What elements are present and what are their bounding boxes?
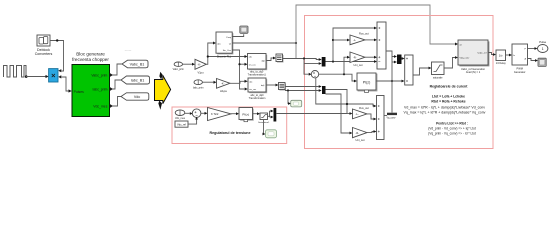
svg-text:Vdc: Vdc — [134, 95, 141, 99]
gain Rq — [353, 128, 368, 138]
svg-text:Rux_out: Rux_out — [359, 31, 369, 35]
mux bar d — [397, 55, 402, 65]
wire PWM to terminator — [528, 59, 536, 61]
svg-text:-K-: -K- — [221, 82, 225, 86]
node: junction x392 — [391, 80, 393, 82]
node: junction Iq — [287, 89, 289, 91]
svg-text:abc: abc — [249, 57, 252, 59]
voltage regulator red box — [172, 107, 287, 144]
svg-text:Pulse: Pulse — [539, 40, 546, 44]
terminator gray box — [538, 58, 546, 66]
vertical bus x392 — [391, 57, 393, 113]
Uabc_ref Generation block — [458, 40, 489, 74]
saturation block — [432, 62, 445, 79]
goto tag Vdc — [121, 93, 149, 100]
wire Iabc_prim to tag — [113, 80, 121, 89]
wire Uabc out to unit delay — [488, 53, 493, 55]
pulse generator signal squiggle — [4, 66, 27, 78]
wire PLL Sin_Cos down to both dq0 — [232, 50, 245, 89]
svg-text:Generator: Generator — [514, 70, 526, 74]
mux bar mid — [322, 86, 326, 94]
sum block S3 — [377, 96, 385, 140]
svg-text:Vdc_ref: Vdc_ref — [177, 123, 186, 127]
svg-text:........: ........ — [125, 48, 132, 52]
wire oval to gain I — [203, 81, 214, 83]
wire dq0-2 to selector2 — [266, 84, 276, 86]
node: junction — [346, 103, 348, 105]
wire S1 out jog down — [386, 51, 394, 57]
wire Vdc_mes to tag — [113, 97, 121, 107]
svg-text:Uni_out: Uni_out — [356, 138, 365, 142]
svg-text:PI(z): PI(z) — [363, 80, 371, 84]
wire PWM to pulse outport — [528, 48, 535, 50]
sum block S1 — [377, 22, 386, 69]
svg-text:-K-: -K- — [198, 63, 202, 67]
selector icon 2 — [279, 83, 287, 91]
saturation v block — [258, 113, 270, 124]
svg-text:Pentru Ltot >> Rtot :: Pentru Ltot >> Rtot : — [436, 122, 468, 126]
wire PI v to saturation v — [253, 113, 258, 115]
S3 out to Vq tag — [384, 115, 387, 117]
svg-text:1: 1 — [542, 47, 544, 51]
wire Vdc_ref to sum — [188, 120, 197, 125]
small green block 2 — [266, 130, 277, 138]
wire gain Rd to S1 — [365, 56, 374, 58]
svg-text:V1pu: V1pu — [197, 70, 204, 74]
node: junction c1 out — [343, 73, 345, 75]
wire oval to gain V — [183, 63, 193, 65]
wire PI d out to S2 — [376, 80, 402, 82]
svg-text:1/z Delay: 1/z Delay — [496, 62, 507, 65]
node: junction Vd — [303, 57, 305, 59]
node: junction dot deblock wire — [56, 39, 58, 41]
wire gain Lq out to S3 — [367, 114, 374, 119]
svg-text:Saturation1: Saturation1 — [258, 121, 270, 124]
svg-text:-R-: -R- — [356, 132, 360, 135]
PWM Generator block — [512, 44, 528, 74]
node: junction gain V out — [207, 55, 209, 57]
wire deblock to product — [50, 41, 64, 72]
svg-text:-R-: -R- — [353, 56, 357, 59]
svg-text:Sin_Cos: Sin_Cos — [223, 50, 232, 52]
node: junction — [332, 60, 334, 62]
node: junction wt — [295, 42, 297, 44]
svg-text:(Vq_prim - Vq_conv) => - Id: (Vq_prim - Vq_conv) => - Id * Ltot — [428, 132, 476, 136]
goto tag Iabc_B1 — [121, 76, 150, 84]
wire saturation to Uabc gen — [444, 58, 455, 69]
wire S2 out to saturation — [413, 68, 429, 75]
sum block S2 — [405, 55, 413, 85]
constant Vdc_ref — [175, 121, 188, 127]
svg-text:Vdc_mes: Vdc_mes — [93, 104, 107, 108]
Deblock Converters block — [35, 35, 53, 56]
wire gain Ld to S1 — [365, 39, 374, 41]
sum circle c1 — [311, 71, 318, 78]
node: junction — [332, 39, 334, 41]
node: junction dot pulse output — [25, 75, 28, 78]
wire up to feedforward — [333, 28, 374, 62]
selector icon 1 — [276, 54, 284, 63]
svg-text:Transformation: Transformation — [249, 97, 266, 100]
green subsystem block: Bloc generare frecventa chopper — [72, 65, 110, 117]
unit delay block — [496, 50, 507, 65]
gain A1pu — [217, 79, 231, 89]
wire Vabc_prim to tag — [113, 64, 122, 75]
sum circle c2 — [192, 109, 201, 118]
wire dq0-1 to selector1 — [266, 58, 273, 61]
wire mux d out to S2 — [401, 58, 403, 60]
abc to dq0 block 1 — [248, 54, 268, 77]
svg-text:Pulses: Pulses — [74, 90, 84, 94]
svg-text:PI(z): PI(z) — [242, 112, 249, 116]
mux bar v — [274, 108, 277, 122]
wire gain to PI v — [231, 113, 236, 115]
wire gain I to dq0 block2 — [230, 81, 245, 83]
svg-text:Transformation1: Transformation1 — [248, 74, 267, 77]
wire long from mux v to q-cluster — [276, 113, 347, 115]
abc to dq0 block 2 — [248, 78, 267, 100]
PI(z) voltage regulator block — [239, 108, 254, 122]
svg-text:sin_cos: sin_cos — [249, 64, 256, 66]
svg-text:A1pu: A1pu — [220, 89, 227, 93]
wire product to green Pulses input — [61, 77, 68, 91]
wire sat v to mux v — [268, 111, 271, 117]
svg-text:Vdc_mes: Vdc_mes — [175, 117, 186, 120]
wire c1 down to q harness — [316, 78, 374, 106]
from tag oval Vabc_prim — [174, 62, 182, 66]
svg-text:Avail (N) = 1: Avail (N) = 1 — [466, 70, 481, 74]
svg-text:Discrete PLL: Discrete PLL — [217, 55, 232, 58]
svg-text:Vq_conv: Vq_conv — [387, 118, 397, 120]
svg-text:-L-: -L- — [356, 113, 359, 116]
wire down to small green display — [287, 91, 289, 104]
wire gain Rq out to S3 — [367, 132, 374, 133]
voltage regulator: inport oval — [175, 110, 185, 116]
svg-text:Converters: Converters — [35, 52, 53, 56]
wire c1 out to PI d — [319, 74, 354, 81]
small green block 1 — [291, 100, 302, 107]
wire PLL wt long run — [232, 42, 296, 44]
wire unit delay to PWM — [506, 54, 510, 56]
svg-text:K Ts/2: K Ts/2 — [211, 112, 219, 116]
svg-text:Regulatorul de tensiune: Regulatorul de tensiune — [210, 131, 251, 135]
wire branch down to green display 2 — [263, 120, 264, 135]
svg-text:Reglatoarele de curent: Reglatoarele de curent — [430, 85, 469, 89]
big red region box — [305, 16, 494, 149]
wire Vd branch down — [304, 59, 309, 75]
wire into gain Lq from x347 — [347, 113, 350, 115]
svg-text:abc: abc — [249, 81, 252, 83]
wire branch up to gain Ld — [344, 57, 347, 74]
wire pulse to product — [26, 76, 46, 78]
wire inport to sum — [185, 112, 190, 114]
svg-text:Iabc_B1: Iabc_B1 — [131, 79, 145, 83]
svg-text:Vq_max = Iq*L + Id*R + damp(dq: Vq_max = Iq*L + Id*R + damp(dq*L/wbase* … — [404, 111, 486, 115]
wires from selector2 into mux mid — [285, 86, 319, 88]
wire PLL Freq to scope — [232, 34, 244, 36]
svg-text:sin_cos: sin_cos — [249, 89, 256, 91]
svg-text:(Vd_prim - Vd_conv) => + Iq*: (Vd_prim - Vd_conv) => + Iq* Ltot — [428, 127, 476, 131]
svg-text:-L-: -L- — [353, 39, 356, 42]
scope terminator icon — [240, 26, 248, 33]
svg-text:saturatie: saturatie — [433, 76, 443, 79]
gain Rd — [350, 52, 365, 63]
PLL block — [216, 32, 233, 58]
gain V1pu — [195, 59, 206, 69]
svg-text:1/z: 1/z — [499, 54, 503, 58]
from tag oval Iabc_prim — [194, 80, 202, 85]
wire mux top out to S1 — [326, 61, 375, 63]
node: junction sincos — [238, 63, 240, 65]
svg-text:Uabc_ref: Uabc_ref — [478, 52, 487, 55]
svg-text:×: × — [51, 71, 56, 80]
svg-text:Vabc_prim: Vabc_prim — [91, 73, 107, 77]
svg-text:frecventa chopper: frecventa chopper — [72, 57, 109, 62]
svg-text:Freq: Freq — [227, 36, 232, 39]
PI(z) current regulator d — [357, 73, 377, 92]
svg-text:Ltot = Lofa + Lchoke: Ltot = Lofa + Lchoke — [432, 95, 465, 99]
svg-text:Uni_out: Uni_out — [354, 63, 363, 67]
svg-text:Iabc_prim: Iabc_prim — [193, 86, 204, 89]
svg-text:Rtot = Rofa + Rchoke: Rtot = Rofa + Rchoke — [431, 100, 465, 104]
svg-text:Vabc_B1: Vabc_B1 — [130, 63, 145, 67]
wire sum to gain triangle — [200, 112, 204, 114]
wire into gain Ld — [333, 39, 347, 41]
svg-text:Vd_max = Id*R - Iq*L + damp(dq: Vd_max = Id*R - Iq*L + damp(dq*L/wbase* … — [404, 106, 485, 110]
wire mux mid out down to gain Lq — [326, 90, 348, 114]
yellow arrow annotation — [159, 72, 162, 80]
wire wt up and over the top — [296, 5, 455, 59]
svg-text:Rux_out: Rux_out — [359, 106, 369, 110]
product block (blue, x) — [49, 69, 58, 82]
wire Vd line from selector1 — [283, 59, 319, 60]
svg-text:Vabc_prim: Vabc_prim — [173, 68, 184, 71]
svg-text:Iabc_prim: Iabc_prim — [93, 87, 108, 91]
svg-text:Vdq_conv: Vdq_conv — [460, 58, 471, 60]
svg-text:Bloc generare: Bloc generare — [76, 51, 105, 56]
wire gain V out, up, to dq0 and PLL — [206, 43, 213, 64]
green block output port arrows — [110, 73, 114, 77]
goto tag Vabc_B1 — [122, 60, 148, 68]
mux bar top — [322, 57, 326, 67]
voltage regulator gain triangle — [208, 108, 232, 121]
input arrows on right edge of product block — [58, 69, 61, 72]
